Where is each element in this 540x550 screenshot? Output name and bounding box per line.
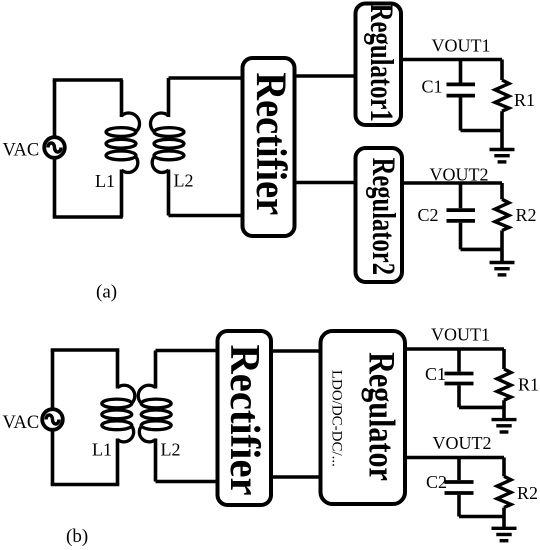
resistor R2 (a) (495, 183, 509, 262)
wire VOUT1 rail (a) (401, 58, 502, 62)
svg-text:VAC: VAC (3, 413, 40, 433)
capacitor C1 (a) (447, 84, 476, 95)
svg-text:C1: C1 (422, 77, 443, 97)
wire loop1 left vertical (a) (53, 80, 57, 217)
svg-text:R2: R2 (517, 483, 538, 503)
wire C2 bottom lead (a) (459, 223, 463, 250)
svg-text:VAC: VAC (3, 141, 40, 161)
svg-text:VOUT1: VOUT1 (431, 325, 490, 345)
inductor L2 (a) coil (150, 113, 184, 172)
wire C1 bottom lead (a) (459, 97, 463, 130)
wire bottom rail VOUT2 (a) (461, 248, 503, 252)
rectifier block (a) (243, 58, 295, 236)
wire C1 top lead (a) (459, 60, 463, 83)
svg-text:C1: C1 (425, 364, 446, 384)
wire rectifier to regulator1 (a) (295, 74, 357, 78)
wire bottom rail VOUT1 (a) (461, 129, 503, 133)
wire loop2 left vertical upper (a) (167, 78, 171, 117)
regulator2 block (a) (356, 148, 403, 282)
wire bottom rail VOUT2 (b) (459, 515, 504, 519)
svg-text:VOUT1: VOUT1 (432, 36, 491, 56)
ac source VAC (a) (44, 137, 65, 158)
svg-text:Rectifier: Rectifier (247, 72, 294, 215)
wire loop1 left vertical (b) (51, 350, 55, 485)
wire loop1 bottom (a) (53, 215, 123, 219)
svg-text:VOUT2: VOUT2 (433, 433, 492, 453)
wire loop2 bottom (b) (156, 480, 218, 484)
ac source VAC (b) (42, 409, 63, 430)
svg-text:Regulator1: Regulator1 (363, 4, 399, 122)
ground below R1 (b) (492, 420, 517, 432)
svg-text:R1: R1 (518, 375, 539, 395)
wire VOUT2 rail (a) (402, 181, 502, 185)
wire loop1 top (b) (51, 348, 120, 352)
wire loop1 bottom (b) (51, 483, 120, 487)
svg-text:Regulator2: Regulator2 (365, 158, 401, 275)
wire rectifier to regulator2 (a) (295, 181, 357, 185)
regulator block (b) (321, 331, 406, 504)
svg-text:(a): (a) (96, 282, 117, 303)
resistor R2 (b) (497, 458, 511, 528)
wire loop1 top (a) (53, 78, 123, 82)
svg-text:C2: C2 (426, 472, 447, 492)
capacitor C1 (b) (445, 374, 474, 384)
svg-text:L1: L1 (95, 171, 115, 191)
ground below R2 (b) (492, 528, 517, 540)
wire loop2 left vertical lower (a) (167, 170, 171, 216)
resistor R1 (a) (495, 60, 509, 150)
svg-text:C2: C2 (418, 205, 439, 225)
svg-text:R1: R1 (514, 90, 535, 110)
wire loop2 top (b) (156, 349, 218, 353)
wire VOUT2 rail (b) (405, 456, 504, 460)
wire loop1 right vertical upper (a) (120, 80, 124, 117)
wire bottom rail VOUT1 (b) (459, 406, 504, 410)
wire C2 bottom lead (b) (457, 495, 461, 517)
svg-text:Rectifier: Rectifier (222, 344, 269, 495)
svg-text:LDO/DC-DC/...: LDO/DC-DC/... (329, 370, 345, 467)
svg-text:L1: L1 (92, 440, 112, 460)
resistor R1 (b) (497, 349, 511, 419)
capacitor C2 (b) (445, 482, 474, 493)
svg-text:L2: L2 (161, 440, 181, 460)
wire C1 bottom lead (b) (457, 385, 461, 407)
wire C1 top lead (b) (457, 349, 461, 372)
capacitor C2 (a) (447, 210, 476, 221)
wire VOUT1 rail (b) (405, 347, 504, 351)
inductor L1 (a) coil (106, 113, 140, 172)
svg-text:Regulator: Regulator (361, 352, 402, 481)
inductor L2 (b) coil (138, 385, 171, 442)
wire loop2 left vertical lower (b) (154, 439, 158, 482)
wire loop1 right vertical upper (b) (116, 350, 120, 389)
svg-text:L2: L2 (174, 171, 194, 191)
inductor L1 (b) coil (102, 385, 135, 442)
wire C2 top lead (b) (457, 458, 461, 481)
svg-text:R2: R2 (516, 205, 537, 225)
svg-text:(b): (b) (66, 526, 88, 547)
ground below R2 (a) (490, 263, 515, 275)
wire loop1 right vertical lower (a) (120, 170, 124, 218)
regulator1 block (a) (356, 4, 402, 126)
wire rectifier to regulator top (b) (271, 349, 321, 353)
wire loop2 bottom (a) (169, 214, 243, 218)
rectifier block (b) (218, 331, 272, 505)
wire C2 top lead (a) (459, 183, 463, 208)
wire loop2 left vertical upper (b) (154, 351, 158, 389)
ground below R1 (a) (490, 150, 515, 162)
wire loop2 top (a) (169, 76, 243, 80)
wire loop1 right vertical lower (b) (116, 439, 120, 485)
wire rectifier to regulator bottom (b) (271, 475, 321, 479)
